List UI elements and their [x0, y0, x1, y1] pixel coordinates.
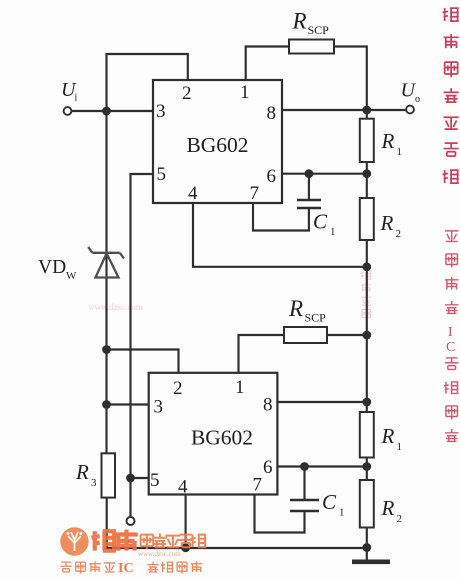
svg-text:C: C	[322, 490, 337, 514]
svg-text:R: R	[381, 129, 395, 153]
resistor R3	[102, 453, 116, 497]
svg-text:R: R	[292, 9, 307, 34]
wire: pin 8 row to output terminal	[282, 109, 406, 111]
node: pin8 lower to rail	[362, 398, 371, 407]
node: pin5 lower junction	[126, 474, 135, 483]
resistor R2 upper	[360, 198, 374, 240]
wire: C1 lower top lead	[303, 467, 305, 499]
svg-text:7: 7	[253, 475, 263, 496]
svg-text:BG602: BG602	[186, 133, 248, 157]
node: R1/R2 divider lower	[362, 462, 371, 471]
wire: R2 lower bottom to ground stub	[366, 528, 368, 561]
wire: pin 5 upper to vertical adjust bus	[131, 174, 154, 517]
svg-text:o: o	[415, 94, 420, 105]
svg-text:1: 1	[240, 82, 250, 103]
wire: pin 1 upper to RSCP1 left	[246, 47, 289, 81]
svg-text:2: 2	[396, 228, 402, 240]
svg-text:1: 1	[235, 377, 245, 398]
node: RSCP2 to rail	[362, 331, 371, 340]
svg-text:www.dzsc.com: www.dzsc.com	[138, 550, 181, 558]
svg-text:7: 7	[250, 183, 260, 204]
svg-text:1: 1	[397, 146, 403, 158]
resistor R1 upper	[360, 119, 374, 162]
svg-text:8: 8	[267, 103, 277, 124]
svg-text:2: 2	[397, 513, 403, 525]
wire: RSCP2 right to rail	[327, 334, 367, 336]
resistor RSCP upper	[289, 40, 334, 54]
svg-text:R: R	[75, 460, 89, 484]
node: left rail to pin3 lower	[102, 400, 111, 409]
svg-text:2: 2	[173, 378, 183, 399]
wire: pin 8 lower row	[277, 401, 366, 403]
wire: left rail down from junction to R3 top	[105, 111, 107, 453]
watermark slogan row (pseudo CJK + IC)	[60, 561, 115, 573]
svg-text:W: W	[66, 270, 77, 282]
svg-text:IC: IC	[118, 561, 134, 576]
resistor R2 lower	[360, 480, 374, 528]
adjust terminal (open circle, bottom of pin5 bus)	[127, 517, 135, 525]
wire: R1 bottom to R2 top	[366, 162, 368, 198]
wire: pin 4 lower down to bottom wire	[185, 495, 187, 549]
red edge watermark column: 全球最大IC采购网站	[445, 231, 458, 314]
node: R1/R2 divider upper	[362, 169, 371, 178]
svg-text:R: R	[288, 296, 303, 321]
svg-text:6: 6	[263, 457, 273, 478]
wire: pin 6 lower row	[277, 465, 366, 467]
svg-text:6: 6	[267, 166, 277, 187]
node: pin4 upper to rail	[362, 262, 371, 271]
input terminal U_i	[64, 107, 72, 115]
svg-text:www.dzsc.com: www.dzsc.com	[88, 302, 143, 312]
node: input junction	[102, 107, 111, 116]
svg-text:2: 2	[182, 83, 192, 104]
wire: pin 1 lower to RSCP2 left	[239, 335, 285, 373]
wire: pin 6 row upper	[282, 173, 367, 175]
svg-text:8: 8	[263, 395, 273, 416]
wire: pin 2 lower link from left rail	[107, 350, 179, 373]
wire: bottom return wire	[107, 547, 367, 549]
wire: pin 4 upper down and right to rail	[193, 203, 367, 267]
op-amp U2 BG602 lower box	[149, 373, 278, 495]
node: left rail to pin2 lower	[102, 345, 111, 354]
wire: top link from input rail to pin 2 of upper BG602	[107, 54, 188, 111]
svg-text:4: 4	[178, 477, 188, 498]
output terminal U_o	[406, 106, 414, 114]
wire: right rail junction to R1 top	[366, 110, 368, 119]
svg-text:3: 3	[154, 397, 164, 418]
wire: rail RSCP2 node down to pin8 node and R1 lower	[366, 335, 368, 412]
wire: pin 3 lower link from left rail	[107, 403, 149, 405]
svg-text:R: R	[381, 424, 395, 448]
zener diode VDw	[88, 247, 124, 278]
node: C1 tap upper	[305, 169, 314, 178]
node: C1 tap lower	[300, 462, 309, 471]
svg-text:1: 1	[339, 507, 345, 519]
node: output junction	[362, 106, 371, 115]
watermark big text (pseudo CJK)	[92, 530, 138, 551]
wire: RSCP1 right to output rail top	[334, 47, 367, 111]
op-amp U1 BG602 upper box	[153, 80, 282, 203]
watermark logo circle	[60, 527, 88, 555]
wire: C1 lower bottom lead and link to pin 7 lower	[255, 495, 305, 533]
wire: R2 bottom down to pin4 node	[366, 240, 368, 335]
svg-text:3: 3	[156, 101, 166, 122]
svg-text:5: 5	[150, 470, 160, 491]
capacitor C1 lower	[290, 500, 319, 511]
svg-text:R: R	[380, 211, 394, 235]
wire: R1 lower bottom to R2 lower top	[366, 458, 368, 481]
wire: C1 upper top lead	[308, 174, 310, 199]
node: bottom wire to ground rail	[362, 543, 371, 552]
wire: pin 5 lower link	[131, 477, 149, 479]
svg-text:I: I	[448, 325, 453, 340]
resistor R1 lower	[360, 412, 374, 458]
ground	[352, 560, 390, 565]
svg-text:SCP: SCP	[308, 23, 330, 37]
svg-text:BG602: BG602	[191, 426, 253, 450]
svg-text:1: 1	[397, 441, 403, 453]
capacitor C1 upper	[297, 200, 321, 208]
wire: C1 upper bottom lead and link to pin 7	[253, 203, 309, 231]
wire: left rail below R3 to bottom wire	[106, 498, 108, 548]
svg-text:R: R	[381, 496, 395, 520]
svg-text:5: 5	[157, 164, 167, 185]
svg-text:C: C	[313, 210, 328, 234]
node: pin4 lower to bottom wire	[181, 543, 190, 552]
svg-text:1: 1	[330, 226, 336, 238]
svg-text:VD: VD	[38, 257, 66, 278]
svg-text:SCP: SCP	[305, 311, 327, 325]
svg-text:C: C	[446, 340, 455, 355]
svg-text:i: i	[75, 93, 78, 104]
wire: input U_i row to pin 3	[72, 110, 154, 112]
resistor RSCP lower	[284, 327, 327, 343]
faint pink ghost watermark (low-alpha remnant)	[361, 270, 372, 319]
svg-text:3: 3	[91, 477, 97, 489]
red edge watermark column: 维库电子市场网	[443, 8, 459, 183]
svg-text:4: 4	[188, 183, 198, 204]
